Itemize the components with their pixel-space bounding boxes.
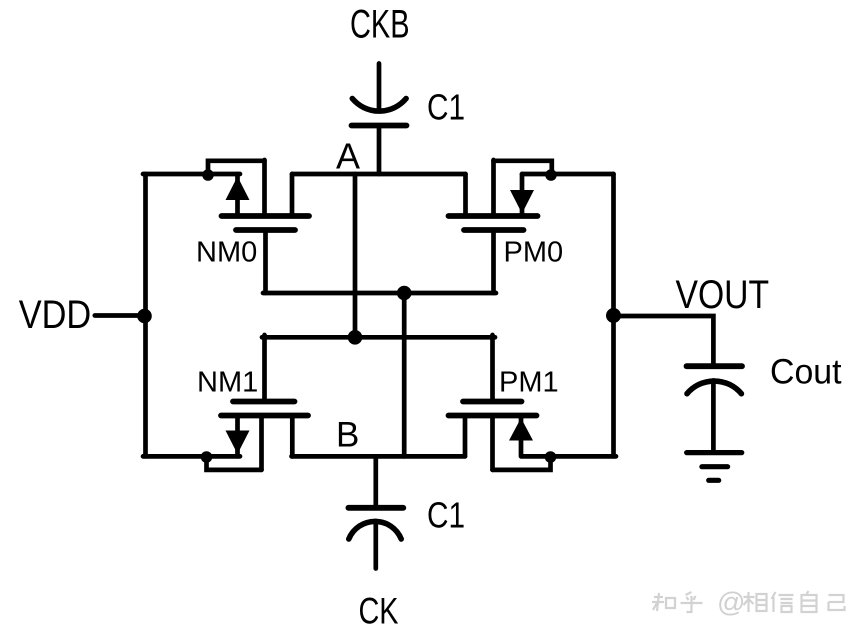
wire: bottom-right (PM1 to VOUT rail) bbox=[522, 454, 617, 459]
svg-text:NM0: NM0 bbox=[196, 237, 257, 269]
wire: C1 bottom curved plate to CK bbox=[373, 521, 378, 569]
svg-text:PM0: PM0 bbox=[504, 237, 564, 269]
wire: PM1 bulk tie notch bbox=[493, 457, 551, 470]
wire: CKB lead down to C1 top plate bbox=[377, 64, 382, 111]
wire: node B to C1 bottom bbox=[373, 456, 378, 507]
wire: bottom-left (VDD rail to NM1) bbox=[143, 454, 240, 459]
ground symbol bbox=[687, 453, 742, 481]
svg-text:B: B bbox=[336, 416, 359, 455]
wire: gate rail of bottom pair (NM1 gate to PM1 gate) bbox=[262, 335, 495, 340]
wire: node A vertical line bbox=[353, 174, 358, 337]
wire: PM0 bulk tie notch bbox=[494, 161, 552, 175]
wire: top-right (PM0 to VOUT rail) bbox=[522, 172, 614, 177]
svg-text:PM1: PM1 bbox=[499, 367, 559, 399]
wire: gate rail of top pair (NM0 gate to PM0 gate) bbox=[263, 291, 496, 296]
svg-text:Cout: Cout bbox=[770, 353, 842, 392]
capacitor C1 (bottom, flat plate + curved plate) bbox=[348, 508, 403, 539]
wire: C1 bottom plate to node A bbox=[377, 126, 382, 175]
svg-text:C1: C1 bbox=[427, 494, 465, 535]
capacitor Cout (flat plate + curved plate) bbox=[687, 366, 743, 394]
svg-text:NM1: NM1 bbox=[197, 367, 258, 399]
junction dot PM0 bulk tie bbox=[545, 169, 557, 181]
svg-text:VDD: VDD bbox=[19, 293, 92, 337]
transistor NM0 bbox=[222, 160, 310, 293]
junction dot PM1 bulk tie bbox=[545, 451, 557, 463]
svg-text:CKB: CKB bbox=[350, 3, 410, 47]
transistor PM1 bbox=[449, 335, 537, 470]
junction dot NM1 bulk tie bbox=[201, 451, 213, 463]
watermark: zhihu @xiangxinziji bbox=[652, 587, 845, 618]
wire: VOUT stub and down to Cout bbox=[614, 316, 714, 364]
svg-text:C1: C1 bbox=[427, 87, 465, 128]
wire: node A horizontal (NM0 drain to PM0 source side) bbox=[292, 172, 466, 177]
junction dot on bottom gate rail (node A line) bbox=[348, 330, 363, 345]
svg-text:CK: CK bbox=[359, 590, 399, 631]
junction dot VDD node bbox=[137, 309, 152, 324]
junction dot VOUT node bbox=[606, 308, 621, 323]
wire: VDD rail vertical bbox=[143, 174, 148, 456]
junction dot on top gate rail (node B line) bbox=[397, 286, 412, 301]
wire: NM1 bulk tie notch bbox=[207, 457, 262, 470]
svg-text:VOUT: VOUT bbox=[676, 273, 770, 317]
transistor PM0 bbox=[449, 160, 538, 293]
transistor NM1 bbox=[221, 335, 308, 470]
capacitor C1 (top, curved plate + flat plate) bbox=[352, 99, 407, 126]
svg-text:A: A bbox=[336, 136, 360, 177]
wire: VDD stub bbox=[95, 313, 146, 318]
wire: top-left (VDD rail to NM0 source) bbox=[143, 172, 240, 177]
wire: VOUT rail vertical bbox=[611, 174, 616, 456]
wire: Cout to ground bbox=[711, 381, 716, 453]
wire: node B vertical line bbox=[402, 293, 407, 456]
wire: NM0 bulk tie notch bbox=[208, 161, 265, 175]
wire: node B horizontal bbox=[292, 454, 466, 459]
junction dot NM0 bulk tie bbox=[202, 169, 214, 181]
svg-text:@: @ bbox=[717, 587, 745, 618]
